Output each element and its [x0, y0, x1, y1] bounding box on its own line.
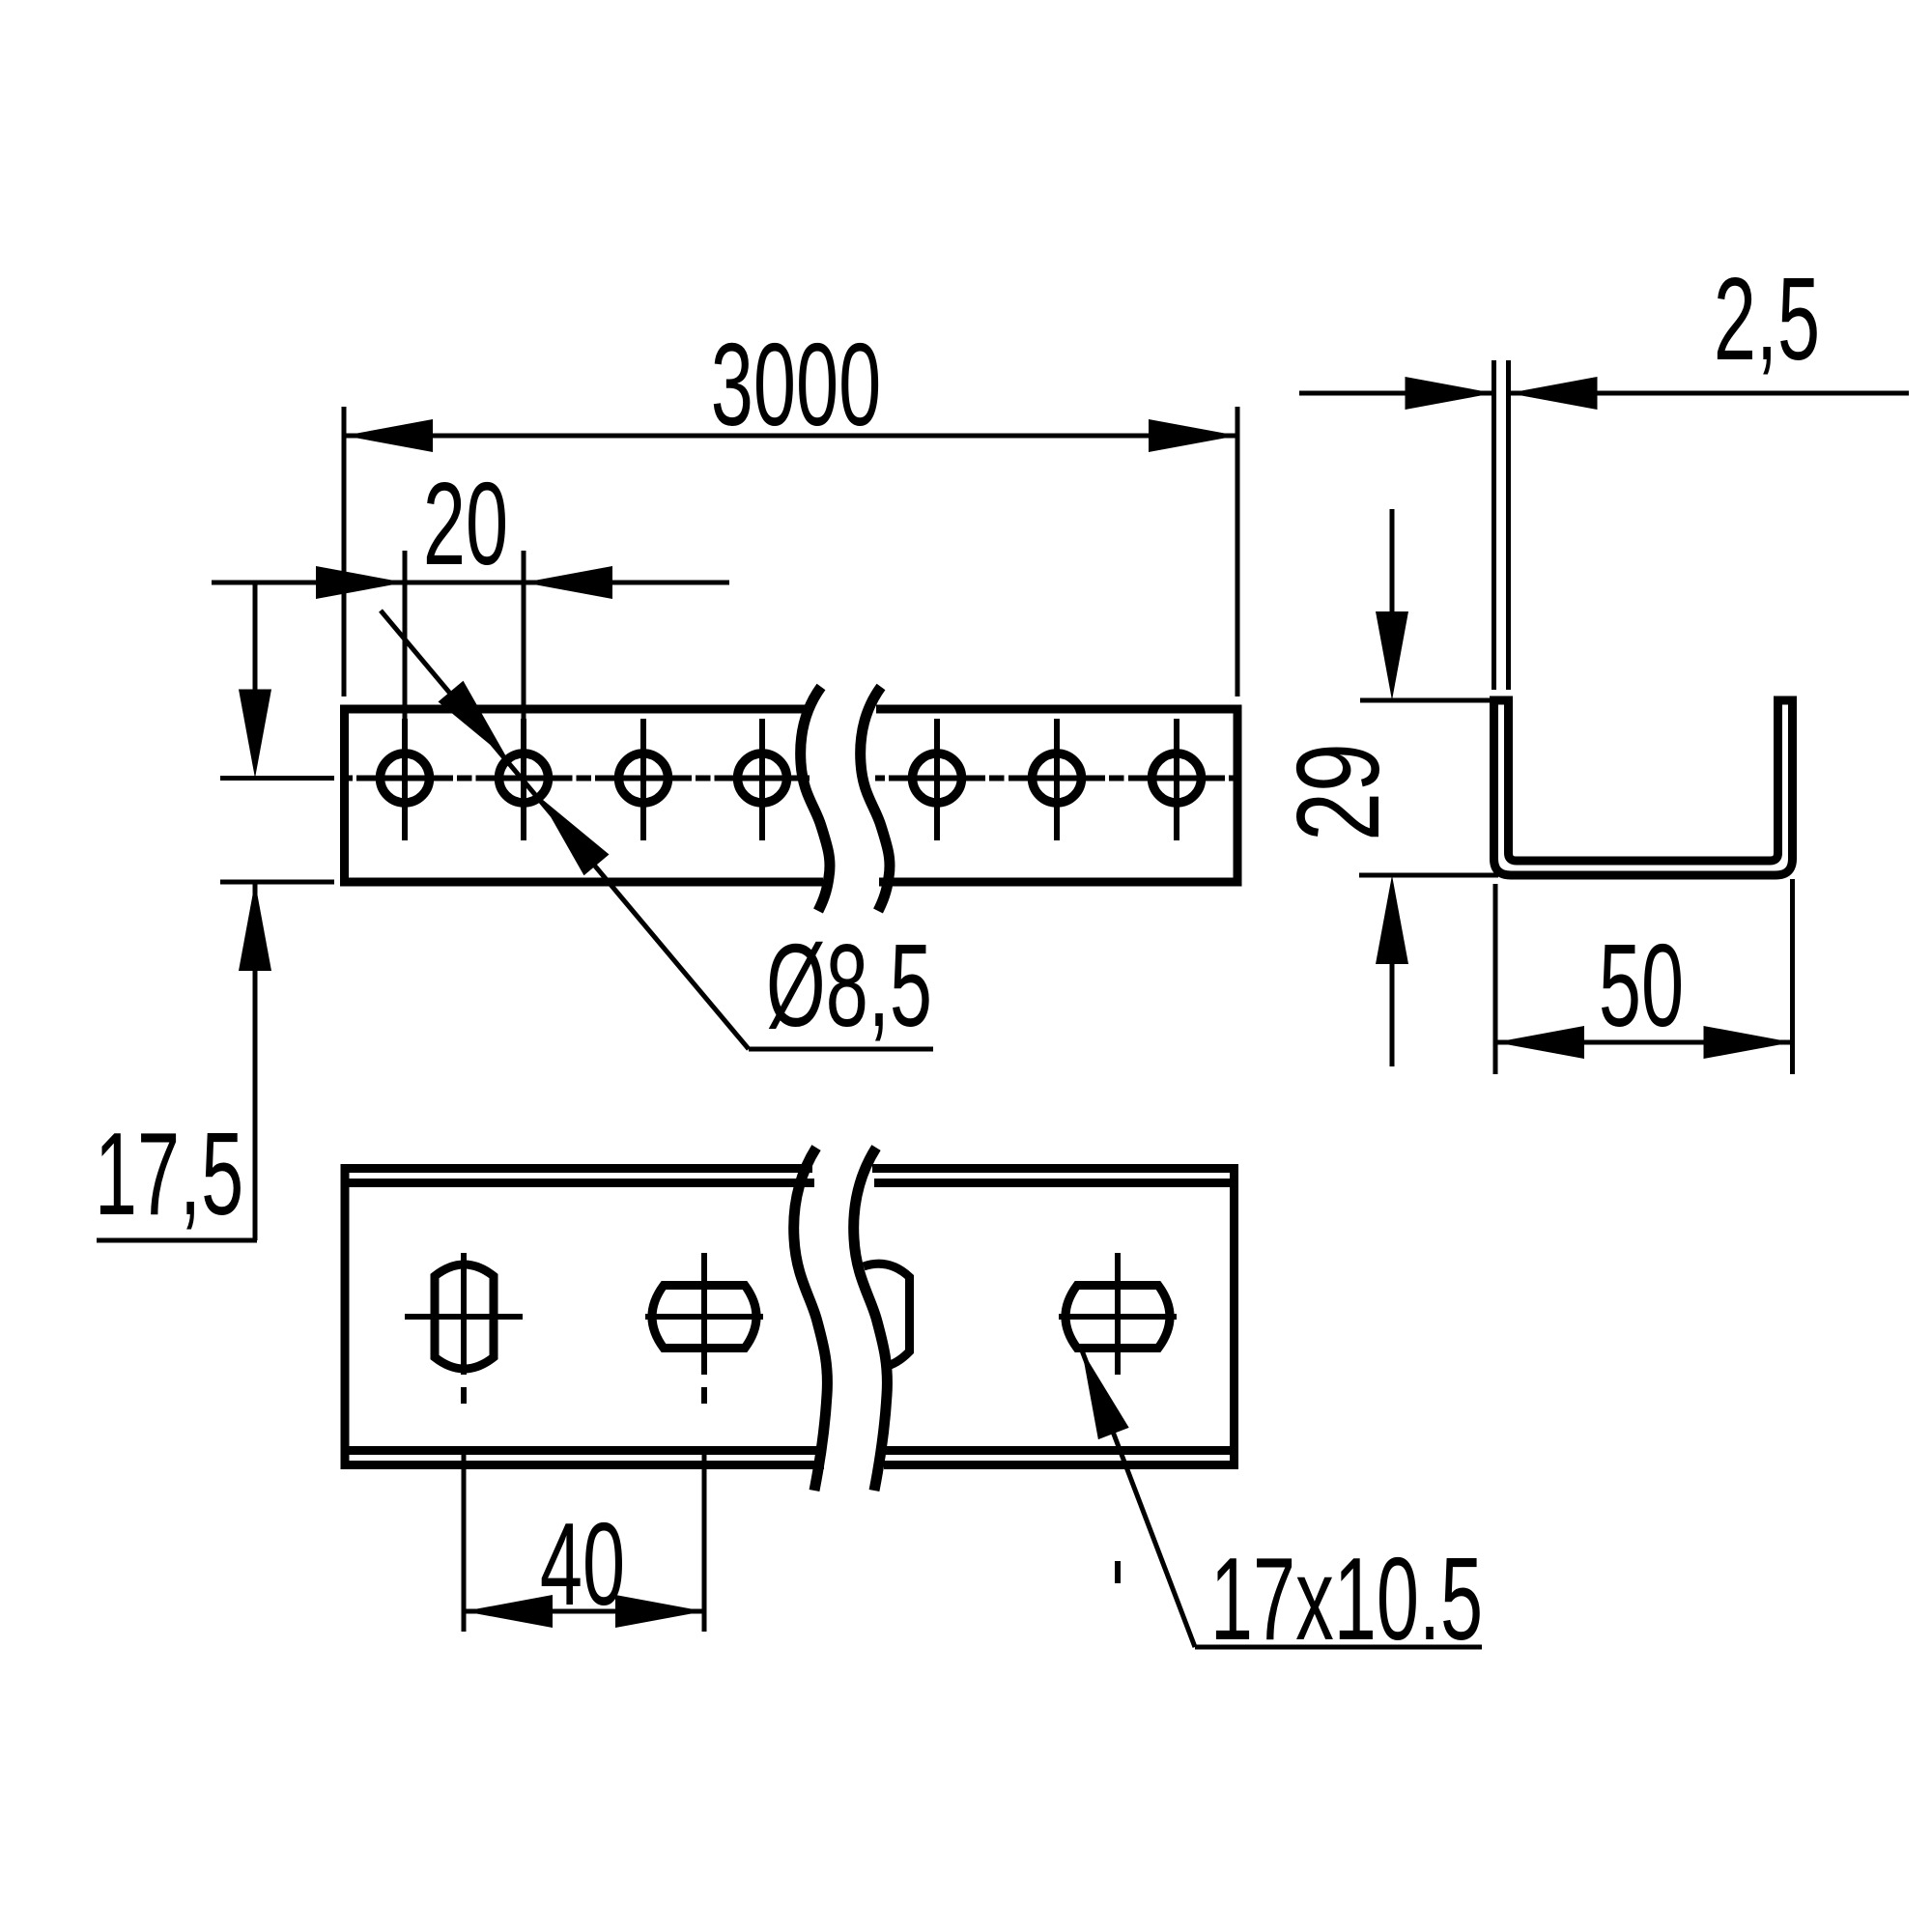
hole 7 [1152, 753, 1202, 803]
dimension 29: extension lines [1360, 698, 1493, 703]
dimension 17,5: centerline tick [220, 776, 334, 781]
rail outline left portion [345, 709, 824, 882]
dimension 2,5: dimension line with outside arrows [1299, 391, 1493, 396]
dimension 29: dimension line with outside arrows [1390, 509, 1395, 611]
profile wall top caps [1490, 696, 1513, 705]
top view outline left portion [345, 1169, 824, 1465]
rail outline right portion [876, 709, 1237, 882]
svg-text:17,5: 17,5 [95, 1108, 243, 1239]
slot 3 (partial, at break) [864, 1264, 910, 1367]
hole 4 [738, 753, 787, 803]
profile inner contour [1509, 700, 1778, 861]
hole 3 [619, 753, 668, 803]
svg-text:29: 29 [1271, 743, 1404, 841]
break line 2 top view [854, 1148, 888, 1491]
label 17x10.5: underline [1195, 1645, 1482, 1650]
svg-text:2,5: 2,5 [1714, 253, 1820, 384]
svg-text:Ø8,5: Ø8,5 [766, 920, 932, 1051]
svg-text:50: 50 [1599, 920, 1684, 1051]
dimension 50: extension lines [1493, 884, 1498, 1074]
slot 4 crosshair [1115, 1253, 1121, 1375]
slot 4 (horizontal) [1065, 1286, 1170, 1349]
dimension 17,5: bottom tick [220, 880, 334, 885]
hole centerline (dashed) right [875, 776, 1237, 781]
top view inner bend line top [350, 1179, 1231, 1187]
dimension 17,5: underline [97, 1238, 257, 1243]
profile outer contour [1494, 700, 1793, 875]
hole 2 [499, 753, 549, 803]
hole 5 [913, 753, 962, 803]
dimension 40: dimension line with arrows [464, 1609, 704, 1614]
slot 1 crosshair [461, 1253, 467, 1375]
slot 2 (horizontal) [652, 1286, 756, 1349]
slot 1 (vertical) [435, 1264, 494, 1369]
dimension 17,5: upper shaft and arrow [253, 582, 258, 692]
dimension 40: extension lines [462, 1446, 467, 1632]
svg-text:17x10.5: 17x10.5 [1210, 1533, 1483, 1664]
dimension diameter 8,5: underline [749, 1047, 933, 1052]
dimension diameter 8,5: arrow lower [539, 797, 609, 875]
dimension 3000: dimension line with arrows [344, 434, 1237, 439]
dimension 20: extension lines [403, 551, 408, 719]
svg-text:40: 40 [540, 1498, 625, 1630]
dimension 17,5: lower arrow and shaft [239, 882, 271, 971]
label 17x10.5: leader line with arrow [1082, 1350, 1195, 1647]
slot 2 crosshair [701, 1253, 707, 1375]
hole 6 [1033, 753, 1082, 803]
break line 1 side view [801, 687, 830, 911]
dimension diameter 8,5: diagonal line through hole 2 [381, 611, 749, 1049]
svg-text:3000: 3000 [711, 319, 881, 450]
svg-text:20: 20 [423, 458, 508, 589]
hole 1 [381, 753, 430, 803]
top view inner bend line bottom [350, 1446, 1231, 1455]
dimension 50: dimension line with arrows [1495, 1040, 1793, 1045]
dimension 3000: extension lines [342, 407, 347, 696]
break line 1 top view [794, 1148, 828, 1491]
dimension 2,5: extension lines [1492, 360, 1496, 690]
top view outline right portion [872, 1169, 1235, 1465]
dimension diameter 8,5: arrow upper [439, 681, 508, 759]
break line 2 side view [861, 687, 890, 911]
dimension 20: dimension line with outside arrows [212, 581, 729, 585]
hole centerline (dashed) left [345, 776, 810, 781]
